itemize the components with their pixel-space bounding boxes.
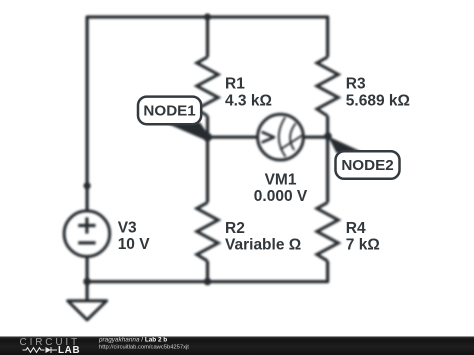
svg-text:7 kΩ: 7 kΩ	[346, 237, 380, 254]
wire V3 bottom lead	[85, 257, 88, 282]
wire voltmeter to node2	[303, 135, 327, 138]
junction bottom middle	[204, 278, 212, 286]
svg-text:R4: R4	[346, 220, 366, 237]
svg-text:0.000 V: 0.000 V	[254, 188, 308, 205]
node NODE2 label pointer	[328, 136, 361, 153]
wire bottom rail	[87, 261, 207, 282]
VM1 needle	[280, 134, 304, 149]
svg-text:R2: R2	[225, 220, 245, 237]
junction V3 top terminal	[84, 182, 91, 189]
wire ground stem	[85, 282, 88, 301]
svg-text:R3: R3	[346, 76, 366, 93]
wire V3 top lead	[85, 186, 88, 211]
wire bottom right corner	[208, 261, 328, 282]
V3 plus sign	[78, 217, 95, 233]
VM1 meter arc long	[279, 117, 286, 157]
VM1 meter arc short	[290, 123, 296, 150]
footer bar	[0, 0, 1, 1]
resistor R2	[197, 203, 218, 262]
svg-text:R1: R1	[225, 76, 245, 93]
logo diode	[46, 347, 52, 353]
node B junction node2	[324, 132, 332, 140]
node NODE2 label box	[336, 151, 400, 179]
wire node1 to voltmeter	[208, 135, 258, 138]
resistor R3	[317, 57, 338, 116]
svg-text:pragyakhanna / Lab 2 b: pragyakhanna / Lab 2 b	[98, 336, 167, 343]
V3 minus sign	[78, 241, 95, 244]
svg-text:NODE2: NODE2	[341, 157, 393, 174]
wire middle branch upper	[206, 17, 209, 57]
voltmeter VM1 body	[258, 114, 304, 160]
wire R3 bottom to node2	[326, 116, 329, 137]
wire left rail and top rail	[87, 17, 328, 186]
svg-text:Variable Ω: Variable Ω	[225, 237, 301, 254]
logo resistor zigzag	[23, 348, 45, 353]
resistor R1	[197, 57, 218, 116]
junction bottom left	[83, 278, 91, 286]
VM1 arrow glyph	[262, 132, 274, 143]
node NODE1 label pointer	[165, 123, 210, 140]
node A junction node1	[203, 133, 212, 142]
svg-text:4.3 kΩ: 4.3 kΩ	[225, 93, 272, 110]
wire node2 to R4 top	[326, 137, 329, 202]
svg-text:LAB: LAB	[58, 345, 80, 355]
resistor R4	[317, 203, 338, 262]
wire node1 to R2 top	[206, 137, 209, 202]
ground	[68, 301, 107, 320]
svg-text:http://circuitlab.com/cawc5b42: http://circuitlab.com/cawc5b4257xjt	[99, 345, 189, 351]
svg-text:V3: V3	[118, 220, 137, 237]
svg-text:5.689 kΩ: 5.689 kΩ	[346, 93, 410, 110]
node NODE1 label box	[138, 97, 201, 125]
junction top	[204, 13, 211, 20]
svg-text:10 V: 10 V	[118, 236, 151, 253]
svg-text:VM1: VM1	[265, 171, 297, 188]
svg-text:NODE1: NODE1	[143, 103, 196, 120]
wire R1 bottom to node1	[206, 116, 209, 137]
voltage source V3 body	[64, 211, 110, 257]
